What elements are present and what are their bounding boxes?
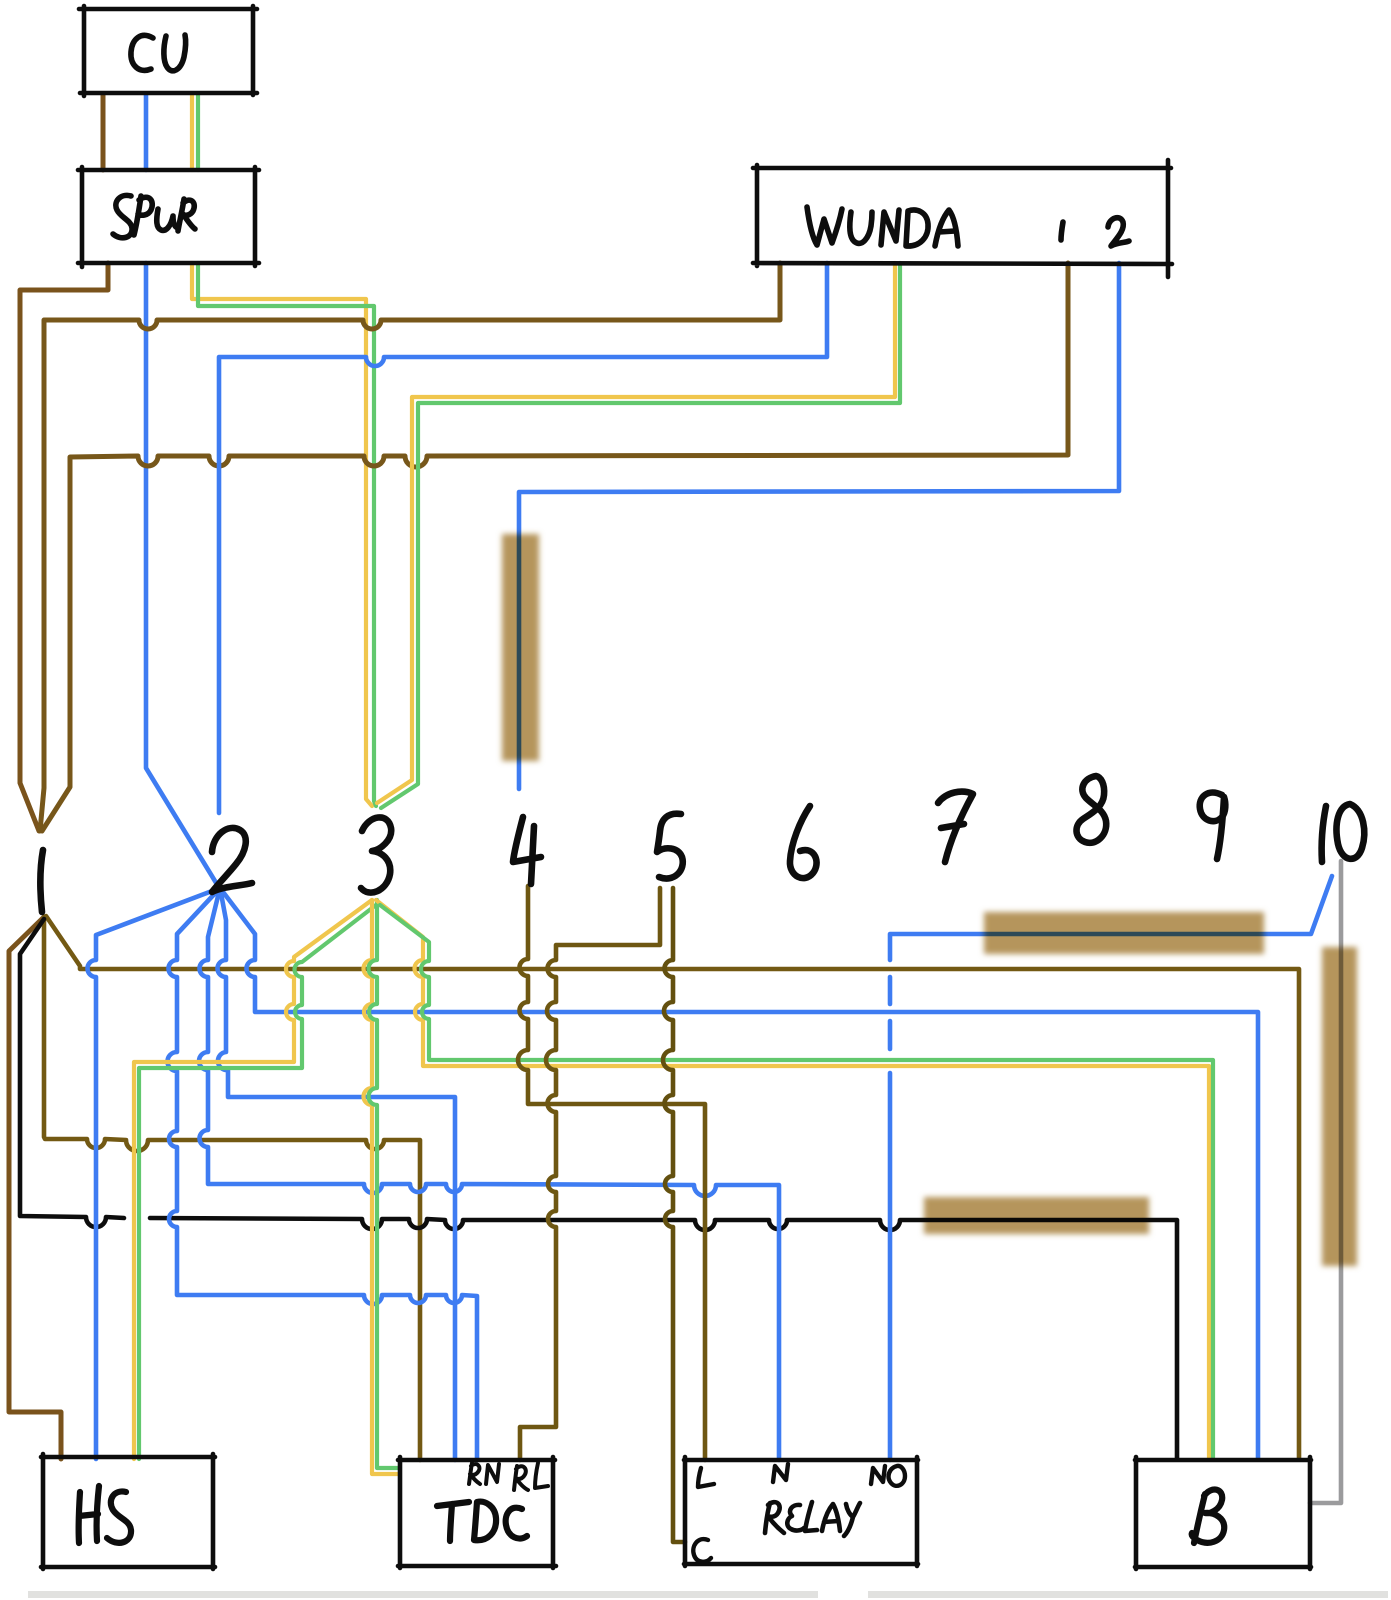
- HIGHLIGHTS: [502, 534, 1357, 1266]
- label WUNDA terminal 1: [1061, 222, 1063, 240]
- wire earth yellow node 3 to TDC: [364, 900, 401, 1474]
- wire grey node 10 to B: [1310, 861, 1341, 1503]
- wire earth green node 3 to TDC: [369, 900, 401, 1468]
- label RELAY pin N: [773, 1464, 788, 1482]
- box WUNDA: [753, 160, 1172, 277]
- wire blue SPUR to node 2: [146, 263, 218, 886]
- wire blue RELAY NO segment 3: [888, 1021, 893, 1049]
- label CU: [131, 35, 153, 70]
- wire earth yellow CU to SPUR: [190, 94, 194, 170]
- wire earth yellow SPUR to node 3: [192, 263, 372, 806]
- wire brown node 5 to TDC: [520, 888, 660, 1460]
- label node 3: [361, 817, 391, 892]
- wire brown WUNDA to node 1 upper bus: [40, 263, 780, 831]
- label B: [1192, 1489, 1225, 1543]
- label node 10: [1322, 804, 1365, 862]
- wire earth yellow WUNDA to node 3: [377, 263, 895, 803]
- label node 6: [790, 806, 817, 878]
- wire blue node 2 to HS: [88, 888, 221, 1459]
- label RELAY pin NO: [871, 1466, 905, 1486]
- wire brown WUNDA pin1 to node 1 lower bus: [42, 263, 1068, 831]
- wire blue RELAY NO segment 4: [888, 1073, 893, 1460]
- wire blue node 2 to TDC PN: [218, 888, 456, 1460]
- box CU: [79, 6, 257, 96]
- label HS: [79, 1486, 99, 1543]
- label WUNDA terminal 2: [1108, 218, 1129, 246]
- label RELAY pin C: [693, 1539, 711, 1562]
- label TDC pin RL: [514, 1463, 548, 1490]
- label RELAY: [765, 1502, 784, 1533]
- wire blue node 10 to RELAY NO upper: [890, 876, 1332, 960]
- wire blue WUNDA pin2 to node 4: [519, 263, 1119, 789]
- highlighter mark over node10 blue wire: [984, 912, 1264, 954]
- highlighter mark over grey wire: [1322, 947, 1357, 1266]
- label node 9: [1200, 793, 1226, 859]
- box HS: [41, 1454, 215, 1569]
- wire brown SPUR to node 1: [20, 263, 108, 831]
- wire brown node 4 to RELAY L: [518, 886, 705, 1460]
- label node 5: [657, 814, 683, 879]
- wire blue node 2 to RELAY N: [199, 888, 779, 1460]
- label TDC pin RN: [469, 1463, 499, 1484]
- label node 4: [513, 817, 541, 884]
- wire brown node 1 to HS: [9, 917, 61, 1459]
- wire blue RELAY NO segment 2: [888, 977, 893, 1004]
- wire earth green SPUR to node 3: [198, 263, 376, 806]
- label RELAY pin L: [698, 1468, 714, 1487]
- label node 8: [1076, 776, 1106, 843]
- wire earth green node 3 to HS: [139, 905, 376, 1459]
- wire brown CU to SPUR: [101, 94, 106, 170]
- wire blue node 2 to TDC RL: [168, 888, 478, 1460]
- box B: [1135, 1457, 1311, 1569]
- wire earth green WUNDA to node 3: [381, 263, 900, 808]
- wire black neutral bus to B: [150, 1218, 1177, 1459]
- wire blue CU to SPUR: [144, 94, 149, 170]
- label SPUR: [113, 195, 132, 237]
- box RELAY: [684, 1457, 918, 1566]
- box TDC: [398, 1457, 556, 1568]
- wire blue WUNDA to node 2: [219, 263, 827, 813]
- wire black node 1 to neutral bus start: [20, 919, 124, 1227]
- table edge shadow right: [868, 1591, 1388, 1598]
- wire earth green node 3 to B: [380, 905, 1213, 1459]
- wire brown node 5 to RELAY C: [663, 888, 685, 1542]
- wire brown node 1 live bus to B: [46, 916, 1299, 1459]
- wire blue node 2 to B: [220, 888, 1258, 1459]
- highlighter mark over neutral bus: [924, 1197, 1149, 1234]
- label node 2: [212, 828, 252, 892]
- box SPUR: [78, 167, 259, 267]
- wire earth green CU to SPUR: [196, 94, 200, 170]
- label WUNDA: [807, 207, 842, 245]
- wire earth yellow node 3 to B: [376, 900, 1209, 1459]
- label node 1: [40, 850, 43, 912]
- wire brown node 1 to TDC via lower bus: [44, 917, 420, 1460]
- table edge shadow left: [28, 1591, 818, 1598]
- wire earth yellow node 3 to HS: [134, 900, 372, 1459]
- label TDC: [437, 1502, 469, 1541]
- highlighter mark over WUNDA pin2 wire: [502, 534, 539, 761]
- label node 7: [938, 792, 973, 862]
